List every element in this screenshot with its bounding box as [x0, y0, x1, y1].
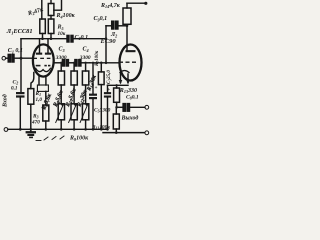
resistor R1 [28, 89, 34, 105]
anode plates [36, 53, 42, 55]
cathode stems with arrows [120, 74, 122, 83]
svg-text:+: + [107, 88, 110, 93]
terminal bottom left [4, 128, 8, 132]
resistor R3 [43, 105, 49, 121]
svg-text:Л1ЕСС81: Л1ЕСС81 [6, 28, 33, 35]
grid dashes [119, 62, 123, 63]
svg-text:R11100к: R11100к [91, 125, 110, 131]
bottom right rail [103, 132, 145, 134]
terminal input top [2, 56, 6, 60]
svg-text:R144,7к: R144,7к [100, 3, 121, 9]
svg-text:3300: 3300 [55, 55, 67, 61]
junction dots [19, 25, 128, 134]
svg-text:С80,1: С80,1 [126, 95, 139, 101]
resistor R7 [98, 72, 104, 85]
svg-text:С725,0: С725,0 [107, 70, 112, 84]
svg-text:С53300: С53300 [94, 108, 111, 114]
svg-text:+: + [95, 86, 98, 91]
resistor R14 [123, 8, 131, 24]
chain 1: resistor R6 top [60, 63, 62, 71]
resistor R2 [50, 0, 52, 4]
heater leads [38, 76, 40, 85]
grid dashes [34, 58, 37, 59]
wire [41, 0, 43, 19]
svg-text:С60,1: С60,1 [75, 35, 89, 41]
svg-text:R9100к: R9100к [69, 136, 89, 142]
svg-text:С3: С3 [59, 47, 65, 53]
chain 3: resistor R10 top [85, 63, 87, 71]
grid wire tube 2 [90, 62, 120, 64]
resistor R4 [40, 19, 46, 34]
svg-text:Вход: Вход [2, 94, 9, 108]
svg-text:Выход: Выход [121, 115, 139, 122]
wire from C9 down [105, 26, 107, 63]
coupling wire [54, 62, 63, 64]
chain 2: resistor R8 top [73, 63, 75, 71]
resistor R13 [116, 85, 118, 88]
capacitor C2 [16, 92, 25, 94]
wire [54, 0, 62, 10]
capacitor C5 [92, 63, 94, 94]
tube U2 envelope [120, 45, 142, 81]
wire down from C4 [81, 62, 90, 64]
svg-text:R4100к: R4100к [56, 13, 76, 19]
svg-text:10к: 10к [58, 31, 66, 37]
svg-text:1,0: 1,0 [36, 97, 43, 103]
svg-text:С1 0,1: С1 0,1 [8, 48, 23, 54]
anode stem [126, 26, 128, 51]
heater arc [36, 68, 51, 71]
text labels [2, 3, 139, 142]
svg-text:3300: 3300 [79, 55, 91, 61]
resistor R5 [48, 19, 54, 34]
svg-text:0,1: 0,1 [11, 86, 18, 92]
svg-text:R5: R5 [57, 25, 64, 31]
ground [30, 129, 32, 131]
tube U1 envelope [33, 44, 54, 76]
cathode lead 1 [31, 73, 34, 89]
diagonal labels [41, 74, 98, 111]
capacitor C9 [112, 21, 114, 29]
resistor R11 [115, 107, 117, 114]
capacitor C8 [117, 106, 124, 108]
svg-text:R13330: R13330 [119, 88, 137, 94]
svg-text:С4: С4 [83, 47, 89, 53]
cathode arc [120, 71, 129, 73]
capacitor C3 [62, 60, 64, 66]
svg-text:R7100к: R7100к [95, 50, 100, 66]
pot row2 p3 [82, 104, 88, 120]
capacitor C4 [75, 60, 77, 66]
wire anode rail [21, 38, 67, 40]
gang dashed line [36, 136, 64, 141]
terminal output [145, 105, 149, 109]
svg-text:С90,1: С90,1 [94, 16, 108, 22]
anode stems [39, 39, 41, 53]
svg-text:470: 470 [31, 120, 40, 126]
capacitor C7 [104, 92, 111, 94]
pot row2 p2 [71, 104, 77, 120]
cathodes [36, 65, 41, 67]
terminal bottom right [145, 131, 149, 135]
bottom rail [8, 128, 108, 130]
heater box [37, 85, 48, 91]
pot row2 p1 [58, 104, 64, 120]
cathode node wire [108, 84, 129, 86]
svg-text:ЕС90: ЕС90 [100, 38, 117, 45]
capacitor C1 [8, 54, 10, 62]
pot arrows [56, 104, 88, 123]
wire [20, 39, 22, 92]
top rail [127, 2, 145, 4]
capacitor C6 [67, 35, 69, 42]
